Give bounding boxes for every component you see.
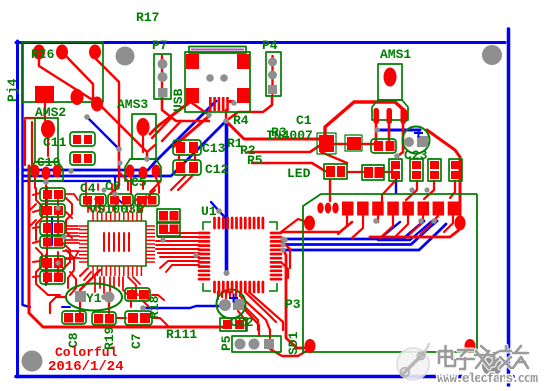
resistor R19 pads: [94, 314, 103, 324]
svg-text:AMS2: AMS2: [35, 105, 66, 120]
wire red u1 bottom fan1: [236, 292, 258, 330]
wire red vs top fan: [96, 206, 139, 211]
wire red left caps zig1: [33, 193, 40, 277]
wire red y1 area2: [79, 302, 81, 313]
wire red vs top mess: [86, 196, 146, 211]
wire red c1 link: [335, 143, 347, 146]
wire blue U1 main vertical: [225, 121, 229, 273]
magenta usb lip line: [191, 49, 244, 51]
svg-text:R17: R17: [136, 10, 159, 25]
wire red node to c1 r1: [226, 121, 319, 139]
wire red p3 long vertical: [283, 249, 306, 348]
wire red c13 c12 link2: [194, 155, 196, 160]
wire blue sd bundle 3: [283, 224, 446, 250]
wire red c22 to p5 diag2: [245, 310, 259, 336]
svg-text:Y1: Y1: [86, 291, 102, 306]
wire red c13 c12 link1: [178, 155, 180, 160]
wire red left long vertical: [29, 166, 222, 327]
wire red u1 bottom left: [218, 292, 222, 299]
capacitor pair pads near ams2: [73, 135, 81, 144]
capacitor C22 outline: [217, 290, 246, 319]
wire red led feed: [329, 180, 331, 201]
wire red u1 right down1: [281, 241, 290, 268]
wire red sd row mid: [283, 222, 352, 232]
capacitor C22 holes: [219, 299, 231, 311]
wire red c22 top entry: [226, 292, 230, 298]
RED LAYER: [25, 52, 460, 356]
wire red cols down1: [382, 181, 395, 201]
capacitor C23 outline: [403, 127, 430, 154]
left cap column outlines: [40, 188, 65, 201]
wire red caps c4 row: [88, 206, 142, 212]
usb comb pins: [209, 97, 234, 111]
sd corner pads: [304, 216, 315, 231]
wire red node to p4: [226, 96, 272, 121]
wire red y1 area1: [108, 302, 110, 313]
svg-text:Pj4: Pj4: [5, 78, 20, 102]
wire red mid mess2: [147, 145, 155, 160]
diode C1 pads: [319, 135, 334, 152]
wire blue c22 left: [143, 306, 221, 308]
connector P7 outline: [154, 54, 171, 99]
wire blue zig below cols: [378, 221, 432, 240]
capacitor C6 outline: [108, 194, 133, 206]
resistor pads near ams1: [374, 141, 383, 151]
capacitor C7 outline: [125, 311, 152, 325]
wire red comp2 to col1: [385, 166, 392, 172]
resistor pads right of led: [364, 167, 373, 178]
blue plus C23: [229, 129, 423, 303]
svg-text:C23: C23: [404, 148, 428, 163]
wire red left col vert1: [46, 187, 48, 283]
wire red left squiggle4: [66, 250, 74, 288]
svg-text:USB: USB: [171, 88, 186, 112]
resistor R16 pads: [33, 45, 45, 60]
capacitor C13 outline: [173, 140, 201, 155]
wire blue sd bundle 1: [283, 221, 424, 239]
svg-text:C6: C6: [105, 179, 121, 194]
wire blue U1 entry: [211, 202, 227, 219]
wire red c1 right link: [360, 143, 374, 146]
left cap column pads: [43, 190, 52, 199]
wire red u1 bottom fan2: [240, 292, 270, 338]
svg-text:C13: C13: [202, 141, 226, 156]
svg-text:R5: R5: [247, 153, 263, 168]
wire red u1 right up1: [281, 219, 304, 232]
resistor column1 outline: [389, 159, 402, 181]
wire red maze extra1: [63, 243, 70, 269]
capacitor C5 outline: [135, 194, 159, 206]
svg-text:C1: C1: [296, 113, 312, 128]
wire red usb bl to ams3: [150, 102, 190, 134]
wire red ams2 horiz: [25, 117, 45, 119]
wire red u1 right down2: [281, 262, 288, 278]
capacitor block right of vs outline1: [157, 209, 180, 222]
wire red left squiggle1: [36, 188, 42, 240]
resistor column pads: [391, 161, 400, 169]
wire red led link: [348, 171, 363, 173]
wire red usb crossing diagonals: [152, 118, 181, 141]
wire red ams1 pin1 down: [375, 120, 378, 141]
wire red ams3 pads down: [131, 178, 159, 194]
wire red sd pads down3: [377, 216, 379, 222]
resistor column3 outline: [428, 159, 441, 181]
RED PADS: [31, 45, 476, 354]
regulator AMS3 pads: [137, 118, 150, 136]
svg-text:2016/1/24: 2016/1/24: [48, 359, 124, 375]
watermark chinese glyph strokes: [439, 346, 528, 369]
wire blue below pads col: [395, 180, 397, 193]
svg-text:AMS1: AMS1: [380, 47, 411, 62]
resistor R16 outline: [22, 42, 103, 102]
wire red under oval: [370, 230, 459, 237]
wire red vs bottom diag: [80, 268, 148, 307]
svg-text:SD1: SD1: [286, 331, 301, 355]
wire blue ams1 c23: [377, 129, 420, 132]
svg-text:C10: C10: [37, 155, 61, 170]
wire red maze extra3: [30, 204, 72, 226]
wire blue third horizontal: [23, 180, 110, 182]
wire red ams1 pin2 down: [388, 120, 391, 141]
wire red p5 to pad: [270, 349, 308, 356]
connector USB outline: [185, 52, 250, 112]
connector P4 holes: [268, 58, 277, 67]
capacitor C4 pads: [83, 196, 92, 205]
connector P7 holes: [158, 59, 168, 69]
regulator AMS1 pads: [384, 68, 397, 87]
svg-text:R4: R4: [233, 113, 249, 128]
svg-text:C11: C11: [43, 135, 67, 150]
wire red vs right to u1 low: [160, 261, 199, 272]
sd card contact pads: [342, 202, 354, 216]
WATERMARK: [397, 344, 538, 386]
wire red mid mess1: [142, 136, 144, 152]
ic U1 corner brackets: [203, 222, 277, 291]
wire red ams1 pin3 down: [398, 120, 403, 156]
resistor near ams1 outline: [371, 139, 396, 153]
wire red vs bottom fan: [95, 277, 140, 297]
svg-text:C22: C22: [230, 315, 254, 330]
capacitor block right of vs outline2: [157, 223, 180, 236]
wire blue diagonal usb2: [23, 121, 226, 176]
blue plus C22: [229, 294, 238, 303]
capacitor C23 holes: [404, 137, 414, 147]
watermark logo: [397, 344, 429, 380]
resistor outline right of led: [362, 165, 384, 180]
capacitor C13 pads: [176, 142, 185, 153]
wire red vs center hatch: [104, 233, 129, 251]
wire red p7 to node: [162, 97, 209, 121]
usb center holes: [206, 74, 214, 82]
regulator AMS2 outline: [35, 118, 58, 162]
capacitor C4 outline: [80, 194, 106, 206]
wire red cols down2: [406, 181, 417, 200]
mounting hole bottom right: [482, 356, 502, 376]
svg-text:www.elecfans.com: www.elecfans.com: [437, 371, 538, 386]
RED DATE TEXT: [48, 345, 124, 375]
wire red left squiggle3: [36, 248, 60, 295]
capacitor under C22 pads: [223, 320, 232, 329]
wire red u1 bottom fan4: [249, 292, 283, 330]
svg-text:VS1003B: VS1003B: [89, 202, 144, 217]
wire red y1 left: [50, 297, 66, 313]
capacitor C11 pair outline1: [70, 132, 95, 146]
regulator AMS2 pads: [41, 120, 55, 138]
wire red left squiggle2: [66, 198, 72, 238]
led LED outline: [324, 164, 347, 179]
wire blue left caps weave3: [45, 255, 47, 285]
wire red r16 diag2: [62, 52, 93, 102]
crystal Y1 holes: [75, 291, 86, 302]
wire red r16 diag1: [39, 52, 147, 160]
crystal Y1 outline: [66, 284, 122, 311]
wire red vs left links: [63, 229, 79, 258]
wire red r16 diag3: [95, 52, 119, 185]
vias: [206, 112, 212, 118]
wire red mid diag mess: [110, 172, 160, 199]
regulator AMS3 outline: [132, 114, 156, 159]
wire red cols down4: [450, 181, 455, 198]
wire red maze extra2: [70, 272, 76, 295]
svg-text:LED: LED: [287, 166, 311, 181]
sd small ellipse pads: [317, 203, 323, 214]
mounting hole bottom left: [22, 351, 43, 372]
wire red ams1 feed: [325, 102, 406, 136]
wire red r5 trace: [252, 163, 325, 171]
wire blue trace left edge: [23, 44, 31, 307]
wire red cols down3: [424, 181, 434, 199]
resistor R19 outline: [92, 312, 116, 325]
led pads: [326, 166, 335, 177]
regulator AMS1 outline: [378, 64, 402, 100]
svg-text:IN4007: IN4007: [266, 128, 313, 143]
wire red c1 to led diag: [321, 152, 347, 163]
svg-text:AMS3: AMS3: [117, 97, 148, 112]
wire red node to c13: [173, 116, 209, 147]
capacitor C7 pads: [128, 313, 138, 323]
wire board outline top: [16, 41, 505, 44]
svg-text:P3: P3: [285, 297, 301, 312]
wire red comb to node: [208, 110, 210, 116]
wire blue sd bundle 2: [283, 221, 437, 245]
resistor column4 outline: [449, 159, 462, 181]
wire red comb right: [225, 110, 227, 121]
svg-text:P4: P4: [262, 38, 278, 53]
wire red c22 to p5 diag1: [238, 311, 246, 330]
connector P4 outline: [266, 52, 281, 96]
GREEN SILKSCREEN: [22, 42, 477, 352]
capacitor under C22 outline: [220, 318, 247, 331]
connector P5 outline: [232, 336, 281, 352]
wire red ams2 left verticals: [25, 120, 32, 165]
capacitor C8 pads: [64, 313, 73, 323]
wire blue left caps weave1: [45, 183, 47, 212]
svg-text:C5: C5: [131, 175, 147, 190]
resistor column2 outline: [410, 159, 423, 181]
capacitor C8 outline: [62, 311, 86, 324]
capacitor C12 outline: [173, 160, 201, 175]
connector SD1 outline: [303, 194, 477, 352]
wire red sd pads down5: [410, 216, 453, 234]
svg-text:C12: C12: [205, 162, 229, 177]
capacitor C5 pads: [137, 196, 146, 205]
wire board outline right: [507, 29, 511, 385]
svg-text:R111: R111: [166, 327, 197, 342]
wire red left caps right links: [66, 194, 78, 259]
ic U1 pins: [199, 218, 281, 292]
wire blue vs vertical: [114, 177, 116, 196]
svg-text:C4: C4: [80, 181, 96, 196]
wire blue diagonal ams: [87, 117, 119, 170]
capacitor C6 pads: [110, 196, 119, 205]
usb corner pads: [186, 54, 199, 69]
capacitor C12 pads: [176, 162, 185, 173]
wire red sd pads down4: [380, 216, 423, 238]
svg-text:P7: P7: [152, 38, 168, 53]
capacitor pair outline2: [70, 152, 95, 165]
wire red p7 down: [161, 56, 163, 96]
wire red usb bl to node: [192, 103, 209, 115]
svg-text:R18: R18: [147, 295, 162, 319]
wire blue diagonal usb1: [23, 101, 216, 170]
resistor R18 outline: [125, 288, 150, 301]
wire blue left caps weave2: [51, 217, 53, 245]
wire red u1 left bundle: [156, 233, 199, 257]
wire red c4 c6 feeds: [86, 182, 112, 195]
ic VS1003B outline: [88, 221, 146, 266]
diode C1 outline right: [345, 135, 362, 151]
wire red c12 down1: [178, 175, 193, 190]
mounting hole top right: [482, 45, 502, 65]
wire red u1 bottom fan3: [245, 292, 276, 322]
wire red c10 pads down: [35, 178, 46, 188]
wire red left col vert2: [57, 200, 59, 278]
connector P5 holes: [235, 339, 246, 350]
wire board outline left: [16, 41, 19, 377]
ic VS1003B pins: [79, 212, 155, 276]
svg-text:C7: C7: [129, 333, 144, 349]
mounting hole top left: [116, 47, 135, 66]
wire red r2 trace: [248, 146, 319, 152]
wire red sd pads down1: [338, 216, 347, 234]
GREEN TEXT LABELS: [5, 10, 428, 355]
wire board outline bottom: [16, 375, 513, 379]
svg-text:RI6: RI6: [31, 47, 55, 62]
wire red p4 vertical: [271, 56, 273, 94]
svg-text:P5: P5: [219, 335, 234, 351]
wire red c12 down2: [171, 175, 186, 190]
wire red ams2 pad down: [47, 138, 49, 156]
wire red c23 wrap: [427, 130, 460, 216]
wire red sd pads down2: [352, 216, 363, 238]
diode C1 outline left: [317, 133, 336, 154]
capacitor block right of vs pads: [159, 211, 168, 221]
wire red vs to y1: [80, 270, 100, 290]
resistor R18 pads: [127, 290, 137, 300]
wire red c7 links: [117, 290, 168, 326]
svg-text:U1: U1: [201, 204, 217, 219]
GRAY HOLES AND VIAS: [22, 45, 503, 376]
wire red ams2 down: [44, 95, 46, 120]
wire blue vs area: [62, 196, 122, 307]
svg-text:Colorful: Colorful: [55, 345, 118, 360]
